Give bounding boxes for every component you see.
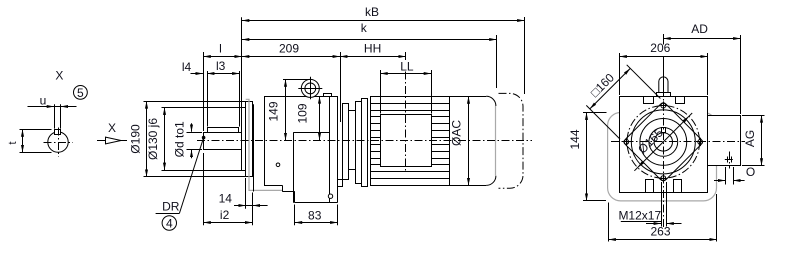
fan guard square (gray): [608, 113, 717, 201]
face view horizontal centerline: [611, 141, 745, 143]
output flange O190: [246, 102, 253, 177]
label DR with leader: [156, 136, 205, 213]
bolt circle O165 (dash-dot): [627, 106, 700, 179]
motor rear plain section: [450, 97, 487, 186]
svg-text:ØAC: ØAC: [450, 120, 464, 146]
svg-text:O: O: [746, 165, 755, 179]
dimension O130 j6 (spigot diameter): [146, 108, 243, 171]
svg-text:4: 4: [166, 216, 173, 230]
dimension O (drain hole): [714, 165, 755, 184]
svg-text:206: 206: [650, 41, 670, 55]
svg-text:14: 14: [219, 192, 233, 206]
svg-text:l4: l4: [182, 60, 192, 74]
svg-text:l3: l3: [216, 59, 226, 73]
output shaft: [204, 133, 242, 150]
svg-text:u: u: [40, 94, 47, 108]
dimension OAC (motor diameter): [450, 96, 469, 185]
extended fan cowl (dash-dot option): [499, 93, 524, 188]
dimension AG (terminal box height): [742, 115, 765, 165]
dimension 206 (plate width): [620, 34, 708, 95]
dimension t (keyway depth): [7, 129, 52, 152]
svg-text:LL: LL: [400, 59, 414, 73]
terminal box centerline: [405, 52, 407, 62]
housing drain hole: [328, 194, 332, 198]
dimension l (shaft length): [203, 42, 242, 131]
fan cowl corner arcs: [486, 96, 496, 185]
svg-text:Ød to1: Ød to1: [172, 121, 186, 157]
terminal box: [381, 115, 432, 167]
dimension HH: [340, 41, 406, 56]
svg-text:M12x17: M12x17: [618, 209, 661, 223]
flange bolt holes: [622, 101, 704, 182]
label M12x17 thread callout: [618, 182, 681, 227]
svg-text:144: 144: [568, 129, 582, 149]
dimension 83: [295, 205, 338, 226]
terminal box end view: [708, 116, 741, 166]
dimension kB (overall length): [242, 5, 525, 108]
dimension O165 diagonal: [634, 113, 692, 171]
keyway on shaft section: [55, 130, 61, 135]
plate bottom tabs: [646, 180, 682, 193]
plate top tabs: [644, 97, 685, 104]
adapter ring 2: [356, 102, 362, 184]
bore keyway: [662, 128, 666, 133]
centering spigot O130: [242, 108, 246, 171]
svg-text:DR: DR: [162, 200, 180, 214]
dimension 109 (housing height): [295, 96, 319, 140]
svg-text:HH: HH: [364, 41, 381, 55]
svg-text:l: l: [219, 42, 222, 56]
housing plug hole: [276, 163, 280, 167]
dimension l3: [207, 59, 240, 126]
svg-text:Ø190: Ø190: [128, 124, 142, 154]
motor front face: [370, 96, 372, 185]
svg-text:83: 83: [308, 208, 322, 222]
face view vertical centerline: [663, 74, 665, 228]
adapter ring 1: [343, 104, 349, 180]
svg-text:209: 209: [279, 41, 299, 55]
dimension k: [242, 21, 497, 88]
eyebolt: [657, 77, 671, 97]
dimension O190 (flange diameter): [128, 101, 247, 177]
svg-text:t: t: [7, 141, 19, 144]
flange square 160 rotated 45deg: [624, 103, 702, 181]
drain hole marks: [725, 152, 734, 169]
dimension i2: [203, 153, 252, 225]
svg-text:k: k: [361, 21, 368, 35]
dimension AD: [663, 22, 740, 114]
svg-text:Ø130 j6: Ø130 j6: [146, 118, 160, 160]
shaft cross-section circle: [48, 132, 68, 152]
dimension 263 (fan guard width): [609, 194, 717, 242]
balloon 4: [162, 216, 176, 231]
adapter neck: [349, 111, 356, 170]
flange concentric circles: [631, 110, 695, 174]
dimension 144 (fan guard height): [568, 113, 607, 201]
dimension 209: [242, 41, 341, 122]
dimension 149 (breather height): [266, 79, 310, 140]
svg-text:X: X: [55, 68, 63, 82]
housing bottom notch: [338, 180, 343, 187]
dimension square160 diagonal: [586, 65, 660, 139]
dimension LL (terminal box width): [380, 59, 431, 113]
svg-text:AG: AG: [743, 130, 757, 147]
svg-text:AD: AD: [691, 22, 708, 36]
motor end shield plate: [620, 97, 708, 193]
breather valve: [298, 77, 322, 99]
alternative housing outline (gray): [246, 99, 282, 190]
svg-text:X: X: [108, 121, 116, 135]
dimension 14 (flange thickness): [219, 178, 268, 225]
dimension u (keyway width): [28, 94, 77, 129]
svg-text:kB: kB: [365, 5, 379, 19]
svg-text:109: 109: [295, 103, 309, 123]
adapter ring 3: [362, 99, 368, 187]
gear housing block: [264, 96, 338, 203]
svg-text:149: 149: [266, 101, 280, 121]
shaft key: [208, 128, 239, 133]
dimension l4: [182, 60, 203, 74]
view direction arrow X: [97, 121, 127, 144]
motor finned body: [370, 97, 450, 186]
svg-text:i2: i2: [220, 208, 230, 222]
centerlines of shaft section: [44, 128, 74, 158]
dimension Od to1 (shaft diameter): [172, 121, 202, 158]
short fan cowl end (gray): [495, 106, 497, 176]
housing top tab: [324, 94, 332, 97]
main centerline of gearmotor: [197, 140, 532, 142]
svg-text:263: 263: [650, 224, 670, 238]
svg-text:5: 5: [77, 86, 84, 100]
housing front wall: [253, 104, 255, 191]
balloon 5: [74, 86, 88, 100]
